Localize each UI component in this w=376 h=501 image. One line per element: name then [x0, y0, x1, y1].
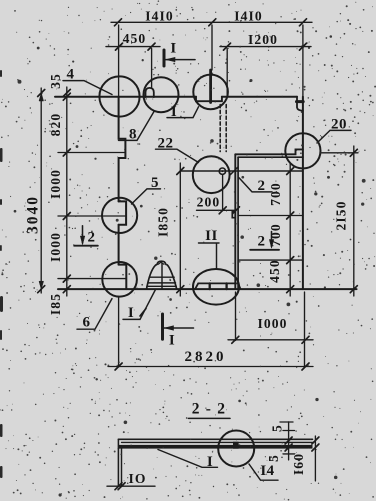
svg-text:2: 2: [258, 234, 266, 250]
left wall face upper segment: [119, 97, 126, 202]
svg-text:I4: I4: [260, 463, 274, 479]
svg-text:I: I: [170, 40, 176, 56]
label 8 underline and leader: [119, 112, 155, 141]
detail circle I (center top joint): [193, 75, 228, 110]
svg-text:450: 450: [123, 31, 147, 46]
left inner chain dimension line: [63, 87, 70, 296]
svg-text:6: 6: [83, 315, 91, 331]
anchor extension tick at inner wall: [231, 168, 238, 175]
hidden duct dashed lines: [220, 105, 226, 152]
slab joint mark in detail circle: [233, 442, 239, 449]
right wall outer face: [302, 97, 304, 289]
extension line 185 tick: [58, 278, 126, 280]
section mark 2 right: bar: [250, 249, 279, 251]
panel top edge right part: [222, 96, 297, 98]
label I underline and leader: [167, 107, 199, 118]
svg-text:IO: IO: [128, 471, 146, 486]
dimension line 1200: [220, 43, 311, 50]
detail circle 8 (arch joint): [144, 77, 179, 112]
svg-text:2I50: 2I50: [334, 200, 349, 230]
extension line 1200 left tick down: [226, 49, 228, 98]
extension from anchor circle down to 200 dim: [222, 175, 224, 211]
svg-text:2820: 2820: [185, 349, 227, 365]
left wall joint notch at detail 6 and bottom corner: [119, 265, 127, 290]
svg-text:I: I: [207, 454, 213, 470]
extension line 450 right tick down to arch in detail 8: [151, 49, 153, 89]
svg-text:II: II: [205, 228, 218, 244]
section mark I bottom: arrow pointing left: [164, 326, 194, 330]
section mark I top: cut bar: [163, 50, 166, 66]
detail circle 20 (right wall joint): [285, 133, 320, 168]
vertical dimension line 1850: [177, 163, 184, 296]
svg-text:I850: I850: [156, 207, 171, 237]
svg-text:I4I0: I4I0: [145, 8, 174, 23]
left leg outer line: [117, 449, 119, 487]
detail circle 4 (top left joint): [99, 76, 139, 116]
detail circle 5 (left wall joint): [102, 198, 137, 233]
vent bell center line: [161, 263, 163, 289]
svg-text:700: 700: [268, 223, 283, 247]
arch detail in circle 8: [146, 88, 154, 97]
label 14 leader: [249, 464, 278, 480]
label 2 underline and leader: [239, 178, 272, 192]
svg-text:5: 5: [270, 424, 285, 432]
svg-text:I000: I000: [48, 232, 63, 262]
inner room left wall outer line: [234, 154, 236, 289]
section mark I top: arrow pointing left: [166, 57, 196, 61]
bottom joint bar profile in detail II: [195, 283, 240, 289]
detail circle 14 (slab joint): [218, 431, 254, 467]
section mark I bottom: cut bar: [161, 314, 164, 339]
label 4 underline and leader: [63, 81, 112, 95]
small bump on inner room wall at 200 dim: [232, 211, 235, 217]
dimension line 450: [106, 43, 160, 50]
extension line 700 mid tick: [239, 215, 303, 217]
top-right corner notch bridge: [297, 100, 304, 103]
slab top line: [118, 438, 312, 440]
dimension line 160: [312, 436, 319, 481]
extension line center axis from top tick down to detail C3: [211, 25, 213, 70]
detail circle II (bottom joint bar): [193, 269, 239, 305]
leader from slab to section trace I: [158, 450, 218, 468]
vent bell course lines: [147, 277, 177, 286]
anchor small circle in detail 22: [219, 168, 225, 174]
stray scan mark: [140, 309, 146, 317]
extension line 1000 tick mid: [58, 215, 125, 217]
left outer dimension line 3040: [38, 88, 45, 293]
svg-text:I: I: [128, 305, 134, 321]
left wall joint notch at detail 5: [119, 201, 127, 224]
slab blackened band: [119, 445, 313, 449]
dimension line 10: [107, 483, 155, 490]
left wall face lower segment: [118, 225, 120, 265]
svg-text:450: 450: [267, 259, 282, 283]
svg-text:I: I: [169, 333, 175, 349]
inner room top wall outer line with jog at detail 20: [235, 149, 303, 154]
scan edge blobs: [0, 70, 3, 478]
small dim extension top right: [280, 421, 293, 423]
bottom edge of panel: [58, 288, 357, 290]
slab inner line: [122, 441, 313, 443]
small dim line right of slab: [285, 422, 292, 460]
vent bell body outline: [147, 261, 177, 289]
left leg inner line: [121, 449, 123, 487]
inner room left wall inner line: [237, 157, 239, 289]
svg-text:200: 200: [197, 194, 221, 209]
extension line right wall down to 2820: [304, 292, 306, 367]
section mark 2 left: bar: [74, 245, 98, 247]
dimension line 200: [197, 207, 240, 214]
label 20 underline and leader: [317, 130, 351, 143]
right outer dimension line 2150: [350, 146, 357, 296]
vent bell knob: [158, 262, 164, 264]
top dimension line 1410/1410: [111, 19, 312, 26]
extension line inner wall down to 1000: [235, 292, 237, 341]
section mark 2 left: arrow down: [80, 226, 84, 245]
extension line right wall top: [302, 25, 304, 97]
bottom joint bar dividers: [210, 283, 227, 289]
label I underline and leader to bell: [123, 290, 156, 320]
small dim extension upper: [283, 430, 295, 432]
extension line left wall down to 2820: [118, 297, 120, 367]
small dim extension lower: [283, 453, 295, 455]
right inner chain dimension line: [287, 164, 294, 296]
section title underline: [189, 417, 231, 419]
anchor small circle center dot: [222, 170, 224, 172]
svg-text:I200: I200: [248, 32, 278, 47]
detail circle 22 (anchor point): [193, 156, 230, 193]
detail circle 6 (bottom left joint): [102, 262, 137, 297]
svg-text:5: 5: [266, 454, 281, 462]
inner room top wall inner line: [238, 156, 303, 158]
anchor extension line through detail 22: [180, 170, 303, 172]
label 22 underline and leader: [156, 149, 199, 162]
extension line 820 tick: [58, 152, 125, 154]
svg-text:35: 35: [48, 73, 63, 89]
joint recess in top edge at detail C3: [196, 97, 222, 102]
svg-text:I000: I000: [48, 169, 63, 199]
dimension line 1000 bottom: [228, 336, 313, 343]
center joint stem in detail C3: [209, 70, 212, 103]
panel top edge: [55, 96, 196, 98]
svg-text:I4I0: I4I0: [234, 8, 263, 23]
extension line from 450 left tick down merging with wall face: [118, 25, 120, 97]
top-right corner notch: [297, 97, 303, 111]
extension line 450 tick: [239, 259, 303, 261]
section mark 2 right: arrow down: [269, 232, 273, 249]
svg-text:I000: I000: [257, 316, 287, 331]
extension line from detail 20 to 2150 line: [321, 152, 359, 154]
label II underline and leader to detail circle: [199, 243, 220, 269]
slab left end cap: [117, 439, 119, 448]
label 6 underline and leader: [77, 299, 112, 330]
label 5 underline and leader: [132, 189, 161, 204]
dimension line 2820: [108, 363, 313, 370]
svg-text:700: 700: [268, 182, 283, 206]
svg-text:I85: I85: [48, 293, 63, 315]
